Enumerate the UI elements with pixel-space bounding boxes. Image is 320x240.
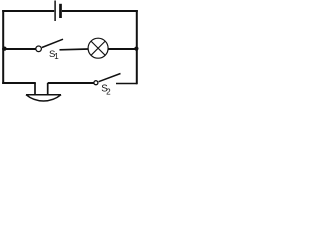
wire S1 to lamp: [60, 48, 89, 51]
wire bottom left: [2, 82, 36, 84]
battery B1 long plate: [54, 1, 56, 22]
bell Y1 top chord: [26, 94, 61, 96]
wire bell right leg: [47, 83, 49, 95]
node left junction dot: [2, 47, 6, 51]
switch S2 lever: [99, 74, 121, 82]
wire left vertical: [2, 10, 4, 84]
battery B1 short plate: [59, 4, 62, 18]
wire middle left: [2, 48, 36, 50]
svg-text:2: 2: [106, 88, 111, 97]
svg-text:1: 1: [54, 52, 59, 61]
wire bell to S2: [48, 82, 94, 84]
switch S1 lever: [42, 39, 63, 47]
lamp L1 cross: [91, 41, 105, 55]
bell Y1 dome arc: [26, 95, 61, 101]
wire right vertical: [136, 10, 138, 84]
wire S2 fixed contact: [116, 83, 137, 85]
wire bell left leg: [34, 83, 36, 95]
switch S1 pivot circle: [36, 46, 42, 52]
wire top right: [62, 10, 138, 12]
wire middle right: [108, 48, 137, 50]
lamp L1 circle: [88, 38, 108, 58]
wire top left: [2, 10, 54, 12]
node right junction dot: [134, 47, 138, 51]
switch S2 pivot circle: [94, 81, 98, 85]
